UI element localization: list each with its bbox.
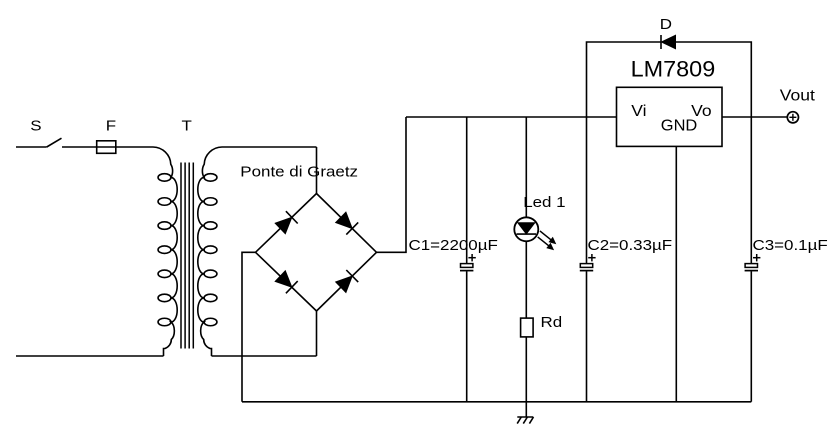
wire [466, 271, 468, 401]
wire [675, 146, 677, 401]
wire [212, 355, 317, 357]
svg-text:C2=0.33µF: C2=0.33µF [587, 238, 672, 254]
wire [406, 116, 617, 118]
wire [377, 117, 407, 252]
capacitor C2 [580, 254, 596, 271]
svg-text:Ponte di Graetz: Ponte di Graetz [240, 164, 358, 180]
bridge diode (left-bottom) [256, 252, 317, 311]
wire [316, 147, 318, 194]
output terminal Vout [787, 112, 798, 123]
wire [586, 117, 588, 263]
svg-text:T: T [182, 118, 193, 134]
transformer T secondary winding [198, 147, 222, 356]
transformer T core [181, 163, 193, 349]
wire [525, 337, 527, 402]
wire [586, 271, 588, 401]
voltage regulator U1 LM7809 [617, 87, 723, 146]
wire [316, 311, 318, 356]
transformer T primary winding [153, 147, 177, 356]
svg-text:LM7809: LM7809 [631, 56, 716, 81]
wire [750, 271, 752, 401]
bridge diode (left-top) [256, 194, 317, 253]
wire [525, 117, 527, 217]
svg-text:Vout: Vout [780, 87, 815, 105]
wire [242, 252, 256, 401]
capacitor C1 [460, 254, 476, 271]
svg-text:S: S [30, 118, 41, 134]
wire [722, 116, 787, 118]
svg-text:Vi: Vi [631, 102, 646, 120]
diode D [661, 35, 676, 49]
svg-text:C3=0.1µF: C3=0.1µF [753, 238, 828, 254]
wire [587, 42, 661, 117]
bridge diode (top-right) [317, 194, 377, 253]
svg-text:F: F [106, 118, 117, 134]
switch S [16, 138, 62, 147]
wire [222, 146, 317, 148]
wire [676, 42, 752, 117]
wire [16, 355, 164, 357]
wire [242, 401, 751, 403]
svg-text:GND: GND [661, 118, 698, 134]
LED Led1 [514, 217, 556, 250]
wire [62, 146, 153, 148]
svg-text:D: D [660, 17, 672, 33]
wire [750, 117, 752, 263]
fuse F [97, 141, 116, 154]
bridge diode (bottom-right) [317, 252, 377, 311]
capacitor C3 [745, 254, 761, 271]
wire [466, 117, 468, 263]
wire [525, 241, 527, 318]
svg-text:Rd: Rd [541, 315, 563, 331]
svg-text:C1=2200µF: C1=2200µF [408, 238, 498, 254]
svg-text:Led 1: Led 1 [523, 195, 566, 211]
ground [517, 402, 533, 424]
resistor Rd [521, 318, 534, 337]
